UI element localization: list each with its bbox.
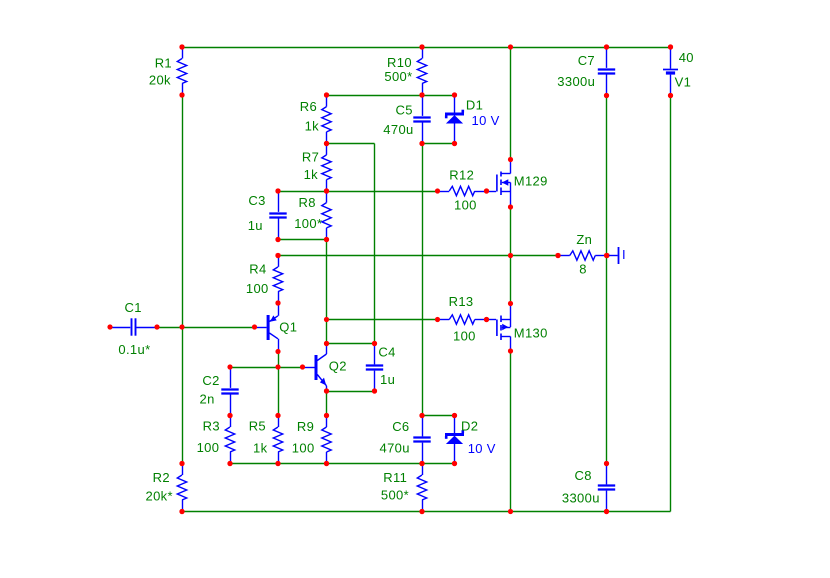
svg-text:100: 100: [453, 329, 476, 344]
svg-text:R6: R6: [300, 99, 317, 114]
svg-text:100: 100: [292, 440, 315, 455]
svg-text:100*: 100*: [294, 216, 322, 231]
svg-text:500*: 500*: [384, 69, 412, 84]
svg-text:2n: 2n: [200, 392, 215, 407]
svg-text:0.1u*: 0.1u*: [118, 342, 150, 357]
svg-text:20k: 20k: [149, 73, 171, 88]
svg-text:100: 100: [454, 197, 477, 212]
svg-text:R4: R4: [249, 262, 266, 277]
svg-text:M129: M129: [514, 174, 548, 189]
svg-text:M130: M130: [514, 326, 548, 341]
svg-text:R10: R10: [387, 55, 412, 70]
svg-text:C8: C8: [575, 468, 592, 483]
svg-text:I: I: [622, 247, 626, 262]
svg-text:C7: C7: [578, 53, 595, 68]
svg-text:8: 8: [579, 262, 587, 277]
svg-text:10 V: 10 V: [472, 113, 500, 128]
svg-text:1k: 1k: [304, 167, 319, 182]
svg-text:10 V: 10 V: [468, 441, 496, 456]
svg-text:470u: 470u: [380, 441, 410, 456]
svg-text:3300u: 3300u: [557, 74, 595, 89]
svg-text:R3: R3: [203, 419, 220, 434]
svg-text:3300u: 3300u: [562, 490, 600, 505]
svg-text:1u: 1u: [380, 372, 395, 387]
svg-text:D1: D1: [466, 98, 483, 113]
svg-text:R1: R1: [155, 56, 172, 71]
svg-text:1k: 1k: [305, 119, 320, 134]
svg-text:1k: 1k: [253, 440, 268, 455]
svg-text:C5: C5: [396, 102, 413, 117]
svg-text:470u: 470u: [383, 122, 413, 137]
svg-text:C3: C3: [248, 193, 265, 208]
svg-text:R9: R9: [297, 419, 314, 434]
svg-text:R5: R5: [249, 419, 266, 434]
svg-text:20k*: 20k*: [146, 488, 173, 503]
svg-text:C4: C4: [378, 344, 395, 359]
svg-text:1u: 1u: [248, 218, 263, 233]
svg-text:V1: V1: [675, 75, 692, 90]
svg-text:100: 100: [197, 440, 220, 455]
svg-text:Q1: Q1: [279, 320, 297, 335]
svg-text:Zn: Zn: [576, 232, 592, 247]
svg-text:R2: R2: [153, 470, 170, 485]
svg-text:R13: R13: [449, 294, 474, 309]
svg-text:C2: C2: [202, 373, 219, 388]
svg-text:R12: R12: [449, 167, 474, 182]
svg-text:Q2: Q2: [329, 359, 347, 374]
svg-text:100: 100: [246, 281, 269, 296]
svg-text:C6: C6: [392, 419, 409, 434]
svg-text:R11: R11: [383, 470, 407, 485]
svg-text:D2: D2: [461, 419, 478, 434]
svg-text:C1: C1: [125, 300, 142, 315]
svg-text:40: 40: [679, 50, 694, 65]
svg-text:R8: R8: [299, 195, 316, 210]
svg-text:R7: R7: [302, 150, 319, 165]
svg-text:500*: 500*: [381, 488, 409, 503]
